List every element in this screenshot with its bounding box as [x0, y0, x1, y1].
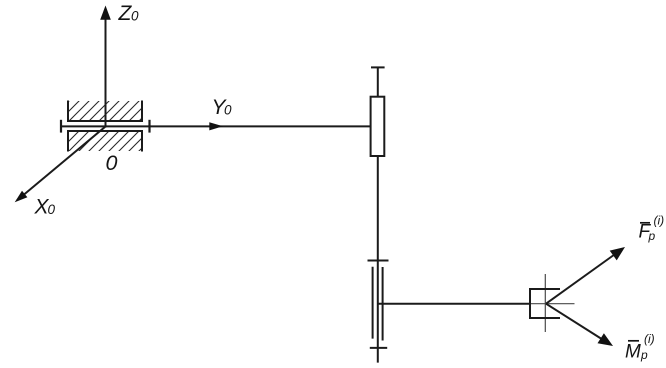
Y0 axis line (also slider rod and link to cylinder): [61, 125, 371, 127]
svg-text:p: p: [648, 229, 656, 243]
horizontal link 2: [378, 303, 531, 305]
force F arrow shaft: [546, 255, 615, 304]
Y0 arrowhead: [209, 122, 223, 130]
svg-text:p: p: [640, 348, 648, 362]
support bottom hatched block: [68, 131, 142, 152]
Z0 arrowhead: [100, 6, 111, 20]
svg-text:0: 0: [106, 151, 118, 175]
end effector bracket (open right square): [530, 289, 560, 318]
vertical link top cap: [371, 66, 385, 68]
svg-text:M: M: [625, 341, 641, 362]
M label overline: [628, 340, 639, 342]
end effector vertical centerline: [544, 274, 546, 332]
end effector horizontal centerline: [529, 303, 575, 305]
moment M arrow shaft: [546, 304, 603, 340]
support top hatched block: [68, 101, 142, 122]
sleeve right line: [382, 267, 384, 341]
sleeve left line: [372, 267, 374, 339]
upper crossbar tick: [368, 260, 389, 262]
X0 arrowhead: [15, 191, 28, 203]
force F arrowhead: [610, 247, 625, 260]
svg-text:0: 0: [131, 8, 139, 23]
vertical link lower stem: [377, 156, 379, 363]
X0 axis line: [17, 127, 106, 201]
svg-text:0: 0: [224, 103, 232, 118]
F label overline: [640, 222, 650, 224]
vertical link upper stem: [377, 67, 379, 97]
svg-text:(i): (i): [644, 332, 655, 346]
svg-text:(i): (i): [654, 214, 665, 228]
slider rod right end cap: [148, 120, 150, 133]
Z0 axis line: [105, 17, 107, 128]
cylinder (prismatic joint body): [371, 97, 385, 156]
slider rod left end cap: [60, 120, 62, 133]
svg-text:0: 0: [48, 202, 56, 217]
moment M arrowhead: [598, 333, 614, 346]
lower crossbar tick: [370, 347, 387, 349]
